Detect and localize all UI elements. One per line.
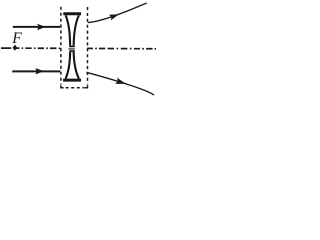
diverging lens body — [63, 14, 81, 80]
arrowhead exit bottom — [115, 78, 126, 87]
dashed box bottom-left corner — [61, 85, 64, 87]
lens lower waist cap — [69, 50, 75, 52]
lens lower right concave side — [74, 52, 79, 79]
exit ray bottom — [86, 72, 154, 95]
arrowhead exit top — [109, 11, 120, 20]
arrowhead incident top — [37, 24, 45, 31]
lens upper right concave side — [74, 15, 79, 46]
lens upper left concave side — [66, 15, 71, 46]
lens plane dashed line left — [60, 7, 62, 85]
arrowhead incident bottom — [35, 68, 43, 74]
lens plane dashed line right — [87, 7, 89, 85]
lens top edge bar — [63, 12, 81, 15]
optical axis dash inside lens waist gap — [68, 48, 74, 50]
dashed bottom connector — [66, 87, 85, 89]
incident ray top — [13, 26, 61, 28]
focal point dot F (diamond) — [13, 45, 18, 51]
lens bottom edge bar — [63, 79, 81, 82]
incident ray bottom — [12, 70, 60, 72]
exit ray top — [88, 3, 147, 23]
optical axis right segment (dash-dot) — [87, 47, 156, 49]
lens upper waist cap — [69, 46, 75, 48]
svg-text:F: F — [11, 30, 22, 47]
dashed box bottom-right corner — [85, 85, 88, 87]
optical axis left segment (dash-dot) — [1, 47, 61, 49]
lens lower left concave side — [66, 52, 71, 79]
